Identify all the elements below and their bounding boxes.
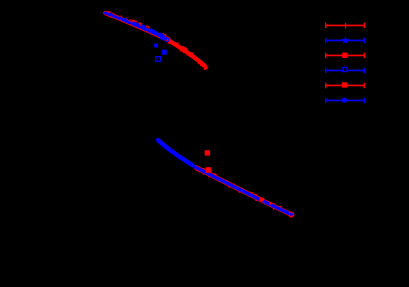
scatter: red end marker of lower band bbox=[289, 212, 293, 216]
lower branch: thicker blue start segment bbox=[158, 140, 192, 165]
legend entry 6: blue errorbar line with filled circle marker bbox=[325, 98, 365, 104]
lower branch: red marker band (base layer, right part) bbox=[196, 168, 292, 215]
lower branch: red marker jitter bbox=[196, 168, 291, 218]
scatter: red filled square outlier A bbox=[205, 150, 210, 155]
scatter: red speck on band bbox=[269, 202, 271, 204]
lower branch: blue marker band full length bbox=[158, 140, 292, 215]
scatter: blue filled square outlier bbox=[162, 50, 167, 55]
upper branch: red star marker at lower tip bbox=[203, 64, 209, 70]
upper branch: red-only continuation segment bbox=[164, 38, 205, 66]
legend entry 5: red errorbar line with filled square marker bbox=[325, 82, 365, 88]
upper branch: extra blue dots bbox=[109, 13, 165, 39]
scatter: blue filled circle outlier bbox=[154, 43, 158, 47]
upper branch: red marker band (base layer) bbox=[106, 13, 167, 39]
upper branch: blue open-circle marker at band end bbox=[161, 36, 165, 40]
legend entry 1: red errorbar line bbox=[325, 23, 365, 29]
scatter: red filled square outlier B bbox=[206, 167, 212, 173]
scatter: blue open square outlier bbox=[156, 57, 161, 62]
legend entry 2: blue errorbar line with star marker bbox=[325, 38, 365, 44]
red segment jitter bbox=[164, 34, 206, 70]
upper branch: red marker jitter bbox=[108, 11, 164, 37]
scatter: red square on band C bbox=[260, 198, 264, 202]
upper branch: blue open-circle marker outlier bbox=[165, 38, 169, 42]
legend entry 3: red errorbar line with filled square marker bbox=[325, 53, 365, 59]
scatter: blue dot over end marker bbox=[290, 213, 293, 216]
upper branch: blue circle-marker band (dotted overlay) bbox=[106, 13, 167, 39]
legend entry 4: blue errorbar line with open square marker bbox=[325, 67, 365, 73]
upper branch: red dash at left start bbox=[107, 12, 112, 14]
